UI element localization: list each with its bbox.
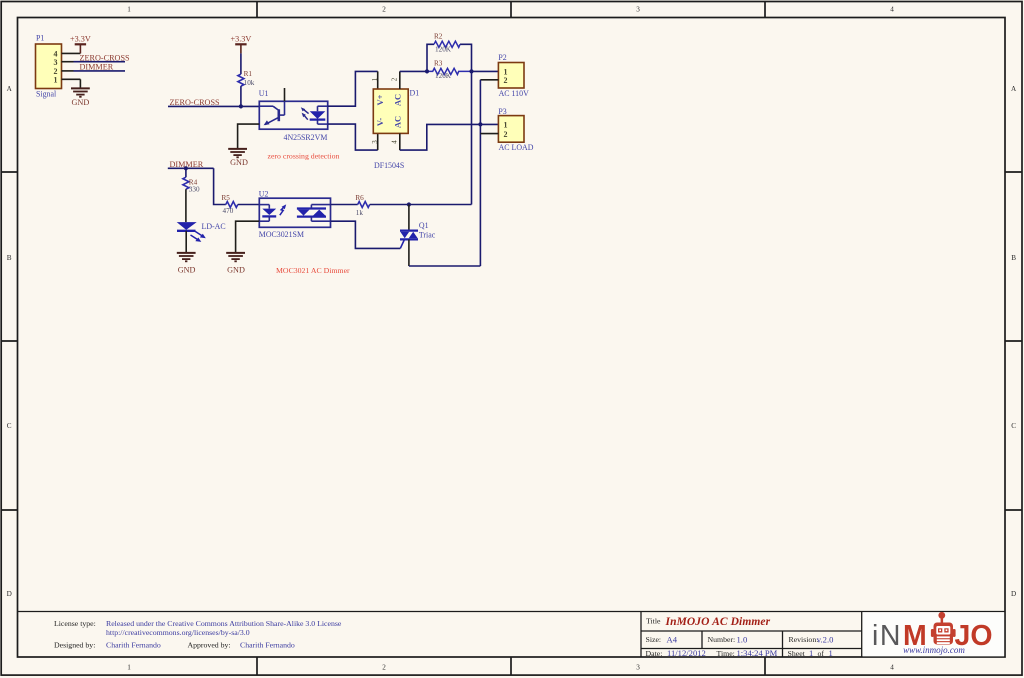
ground GND at U2 [226,253,245,261]
svg-text:Signal: Signal [36,90,57,99]
svg-text:3: 3 [636,6,640,14]
svg-text:Charith Fernando: Charith Fernando [106,641,161,650]
wire D1 pin4 to P3 pin1 [400,124,499,150]
svg-text:GND: GND [178,265,196,274]
svg-text:P3: P3 [498,107,506,116]
svg-text:Released under the Creative Co: Released under the Creative Commons Attr… [106,619,342,628]
svg-text:1: 1 [127,664,131,672]
LOGO [863,612,1005,656]
optocoupler U1 [259,88,328,142]
svg-text:Q1: Q1 [419,221,429,230]
wire DIMMER node to R5 [214,168,226,204]
svg-text:v.2.0: v.2.0 [817,634,834,644]
resistor R1 [238,74,244,86]
wire R5 to U2 [238,204,259,206]
svg-text:D: D [7,590,12,598]
svg-text:+3.3V: +3.3V [231,35,252,44]
svg-text:V+: V+ [375,94,385,105]
svg-text:A: A [7,85,13,93]
wire LED to ground [185,231,187,253]
svg-text:1: 1 [809,648,813,658]
svg-text:+3.3V: +3.3V [70,35,91,44]
wire P3 pin2 to rail B [480,133,498,135]
svg-text:470: 470 [223,207,234,215]
svg-text:2: 2 [504,130,508,139]
svg-text:AC LOAD: AC LOAD [499,143,534,152]
connector P1 [36,34,62,99]
svg-text:U2: U2 [259,190,269,199]
ground GND at LD-AC [177,253,196,261]
wire U2 to R6 [331,204,358,206]
resistor R3 [427,68,471,74]
svg-text:4N25SR2VM: 4N25SR2VM [284,133,328,142]
resistor R5 [226,202,238,208]
svg-text:InMOJO AC Dimmer: InMOJO AC Dimmer [665,616,771,628]
svg-text:2: 2 [382,6,386,14]
svg-text:R3: R3 [434,60,443,68]
wire D1 pin2 to R2/R3 node [400,70,427,72]
svg-text:Charith Fernando: Charith Fernando [240,641,295,650]
connector P3 [498,107,533,152]
svg-text:Time:: Time: [717,649,735,658]
wire R1 to node [240,86,242,106]
svg-text:2: 2 [390,77,398,81]
wire +3.3V to R1 [240,53,242,74]
TITLE BLOCK TEXT [646,617,825,658]
power +3.3V at P1 [75,44,86,53]
svg-text:B: B [7,254,12,262]
ground GND at P1 [71,88,90,96]
svg-text:MOC3021 AC Dimmer: MOC3021 AC Dimmer [276,266,350,275]
svg-text:1:34:24 PM: 1:34:24 PM [737,648,778,658]
wire DIMMER [168,167,214,169]
triac Q1 [400,221,436,248]
svg-text:Designed by:: Designed by: [54,641,95,650]
svg-text:GND: GND [230,158,248,167]
svg-text:AC 110V: AC 110V [499,89,529,98]
svg-text:1: 1 [54,76,58,85]
junction node R2/R3 left [425,69,429,73]
svg-text:LD-AC: LD-AC [202,222,226,231]
svg-text:License type:: License type: [54,619,96,628]
resistor R4 [183,177,189,189]
svg-text:C: C [1011,422,1016,430]
wire rail B [479,80,481,266]
wire ZERO-CROSS to U1 [168,105,259,107]
wire node to Q1 [408,205,410,231]
svg-text:iN: iN [872,620,902,652]
svg-text:zero crossing detection: zero crossing detection [268,151,340,160]
svg-text:2: 2 [382,664,386,672]
power +3.3V at R1 [235,44,246,53]
junction node R1/U1 [239,104,243,108]
svg-text:4: 4 [390,140,398,144]
svg-text:1: 1 [504,121,508,130]
wire ZERO-CROSS from P1 pin3 [74,61,126,63]
wire P2 pin2 to rail B [480,79,498,81]
svg-text:DF1504S: DF1504S [374,161,404,170]
svg-text:1: 1 [371,77,379,81]
svg-text:ZERO-CROSS: ZERO-CROSS [170,98,220,107]
svg-text:GND: GND [72,98,90,107]
svg-text:1k: 1k [356,209,364,217]
svg-text:A4: A4 [667,634,678,644]
wire Q1 MT1 to rail B [408,239,410,266]
TITLE BLOCK LINES [18,612,1006,658]
svg-text:Approved by:: Approved by: [188,641,231,650]
svg-text:120K: 120K [435,72,452,80]
P1 pin numbers 4 3 2 1 [54,50,58,85]
svg-text:Title: Title [646,617,661,626]
svg-text:AC: AC [393,94,403,106]
svg-text:V-: V- [375,118,385,127]
ground GND at U1 [228,149,247,157]
wire node to P2 pin1 [472,70,499,72]
svg-text:C: C [7,422,12,430]
svg-text:Size:: Size: [646,635,662,644]
svg-text:11/12/2012: 11/12/2012 [667,648,706,658]
svg-text:A: A [1011,85,1017,93]
wire U2 pin4 to Q1 gate [331,221,401,248]
svg-text:4: 4 [890,664,894,672]
svg-text:P1: P1 [36,34,44,43]
svg-text:D: D [1011,590,1016,598]
wire P1 pin1 to ground [79,79,81,88]
wire rail A [471,71,473,204]
svg-text:Triac: Triac [419,230,436,239]
junction node DIMMER/R4 [184,166,188,170]
svg-text:P2: P2 [498,53,506,62]
bridge rectifier D1 [371,71,419,169]
wire node to R4 [185,168,187,177]
junction node Q1 [407,202,411,206]
svg-text:R5: R5 [222,194,231,202]
junction node rail B / P3 [478,122,482,126]
resistor R2 [434,41,460,47]
svg-text:R1: R1 [244,70,253,78]
wire U2 pin2 to ground [236,221,260,253]
wire U1 LED cathode to D1 pin3 [328,124,378,150]
svg-text:Date:: Date: [646,649,663,658]
svg-text:D1: D1 [410,88,420,97]
resistor R6 [358,202,370,208]
LED LD-AC [177,222,226,242]
wire R2 branch up [427,44,434,71]
svg-text:of: of [818,649,825,658]
connector P2 [498,53,529,98]
wire U1 emitter to ground [238,124,260,149]
svg-text:1.0: 1.0 [737,634,748,644]
svg-text:1: 1 [127,6,131,14]
LICENSE TEXT [54,619,342,650]
svg-text:R2: R2 [434,33,443,41]
svg-text:http://creativecommons.org/lic: http://creativecommons.org/licenses/by-s… [106,628,250,637]
svg-text:MOC3021SM: MOC3021SM [259,230,304,239]
wire DIMMER from P1 pin2 [74,70,126,72]
svg-text:3: 3 [371,140,379,144]
optocoupler U2 [259,190,331,239]
svg-text:2: 2 [504,76,508,85]
svg-text:Sheet: Sheet [788,649,806,658]
svg-text:www.inmojo.com: www.inmojo.com [903,645,965,655]
wire R4 to LED [185,189,187,222]
svg-text:U1: U1 [259,89,269,98]
svg-text:GND: GND [227,265,245,274]
svg-text:Revision:: Revision: [789,635,819,644]
svg-text:10k: 10k [244,79,255,87]
svg-text:4: 4 [890,6,894,14]
svg-text:Number:: Number: [708,635,736,644]
svg-text:R6: R6 [355,194,364,202]
svg-text:1: 1 [829,648,833,658]
svg-text:B: B [1011,254,1016,262]
wire R6 to rail A [370,204,472,206]
svg-text:3: 3 [636,664,640,672]
P1 pin stubs [62,53,81,79]
wire U1 LED anode to D1 pin1 [328,71,378,106]
svg-text:AC: AC [393,116,403,128]
svg-text:2: 2 [54,67,58,76]
svg-text:330: 330 [189,185,200,193]
svg-text:120K: 120K [435,46,452,54]
junction node R2/R3 right [469,69,473,73]
